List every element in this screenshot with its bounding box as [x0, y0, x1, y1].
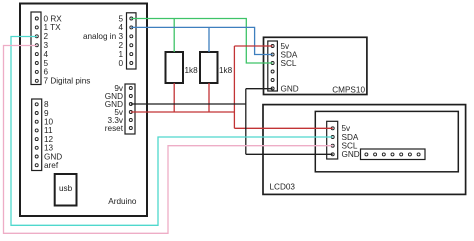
- LCD03 pin header box: [327, 121, 338, 159]
- wire green: junction drop to resistor R1 top: [173, 19, 175, 53]
- resistor R1 1k8: [166, 52, 199, 83]
- wire red: resistor R1 bottom to 5v bus: [173, 83, 175, 112]
- svg-text:reset: reset: [105, 124, 124, 133]
- svg-text:GND: GND: [44, 152, 62, 161]
- digital pins header 8-13 box: [32, 99, 42, 171]
- CMPS10 pin labels: [281, 42, 299, 94]
- svg-text:analog in 3: analog in 3: [83, 32, 124, 41]
- svg-text:6: 6: [44, 68, 49, 77]
- svg-text:9: 9: [44, 109, 49, 118]
- svg-text:1 TX: 1 TX: [44, 23, 62, 32]
- CMPS10 module outline: [264, 37, 367, 94]
- wire red: to LCD03 5v: [234, 127, 332, 129]
- wire black: to CMPS10 GND: [246, 88, 273, 90]
- svg-text:2: 2: [44, 32, 49, 41]
- LCD03 pin labels: [342, 124, 360, 159]
- wire green: analog 5 to CMPS10 SCL: [131, 19, 272, 64]
- svg-text:5: 5: [118, 14, 123, 23]
- svg-text:Arduino: Arduino: [108, 197, 137, 206]
- analog in header box: [127, 13, 137, 69]
- svg-text:5v: 5v: [342, 124, 352, 133]
- LCD03 auxiliary header circles: [365, 153, 420, 156]
- digital pins 8-13 pin circles: [35, 103, 38, 167]
- CMPS10 pin circles: [271, 45, 274, 91]
- digital pins 0-7 pin circles: [35, 17, 38, 82]
- svg-text:3: 3: [44, 41, 49, 50]
- svg-text:0 RX: 0 RX: [44, 14, 63, 23]
- wire pink: digital pin 3 to LCD03 SCL: [4, 46, 333, 234]
- wire red: resistor R2 bottom to 5v bus: [208, 83, 210, 112]
- svg-text:13: 13: [44, 144, 54, 153]
- svg-text:1k8: 1k8: [185, 66, 199, 75]
- analog in labels: [83, 14, 124, 68]
- LCD03 board inner outline: [315, 111, 458, 171]
- digital pin labels 0-7: [44, 14, 91, 85]
- wire red: to CMPS10 5v: [234, 45, 272, 47]
- digital pin labels 8-13: [44, 100, 62, 170]
- svg-text:10: 10: [44, 118, 54, 127]
- wire black: Arduino GND bus: [131, 103, 246, 105]
- analog in pin circles: [130, 17, 133, 65]
- svg-text:usb: usb: [59, 184, 73, 193]
- power pin circles: [129, 87, 132, 130]
- wire black: to LCD03 GND: [246, 153, 333, 155]
- svg-text:11: 11: [44, 126, 53, 135]
- svg-text:0: 0: [118, 59, 123, 68]
- usb connector: [55, 174, 77, 206]
- svg-text:1: 1: [118, 50, 123, 59]
- svg-text:12: 12: [44, 135, 54, 144]
- resistor R2 1k8: [200, 52, 233, 83]
- wire cyan: digital pin 2 to LCD03 SDA: [11, 37, 333, 226]
- wire blue: analog 4 to CMPS10 SDA: [131, 27, 272, 54]
- wire black: GND vertical riser: [245, 89, 247, 155]
- svg-text:4: 4: [44, 50, 49, 59]
- svg-text:4: 4: [118, 23, 123, 32]
- LCD03 auxiliary header box: [361, 149, 426, 160]
- LCD03 module outline: [263, 105, 466, 195]
- CMPS10 pin header box: [268, 41, 278, 91]
- wire blue: junction drop to resistor R2 top: [208, 27, 210, 52]
- svg-text:GND: GND: [281, 84, 299, 93]
- svg-text:CMPS10: CMPS10: [332, 85, 365, 94]
- Arduino board outline: [20, 4, 147, 217]
- svg-text:GND: GND: [342, 150, 360, 159]
- LCD03 pin circles: [331, 127, 334, 156]
- wire red: 5v vertical riser: [233, 46, 235, 128]
- svg-text:5: 5: [44, 59, 49, 68]
- svg-text:2: 2: [118, 41, 123, 50]
- power header box: [125, 84, 135, 134]
- wire red: Arduino 5v bus: [131, 111, 235, 113]
- svg-text:LCD03: LCD03: [270, 182, 296, 191]
- svg-text:SDA: SDA: [342, 133, 359, 142]
- svg-text:aref: aref: [44, 161, 59, 170]
- svg-text:SCL: SCL: [281, 59, 297, 68]
- svg-text:7 Digital pins: 7 Digital pins: [44, 77, 91, 86]
- digital pins header 0-7 box: [31, 12, 41, 85]
- power labels: [105, 84, 124, 133]
- svg-text:1k8: 1k8: [219, 66, 233, 75]
- svg-text:8: 8: [44, 100, 49, 109]
